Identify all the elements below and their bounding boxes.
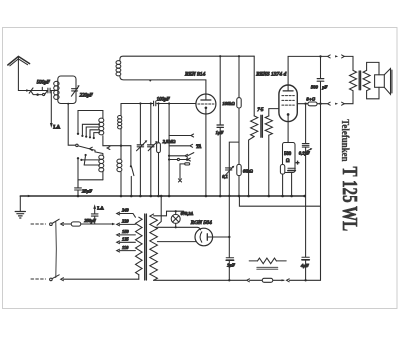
wire antenna horizontal — [18, 90, 57, 92]
wire coil taps to switch posts — [82, 124, 99, 137]
svg-text:500: 500 — [284, 152, 292, 157]
capacitor 250pF to LA — [94, 209, 96, 224]
svg-text:pF: pF — [321, 85, 327, 90]
capacitor 0,1uF — [305, 104, 307, 196]
fuse mains — [71, 222, 81, 226]
svg-text:REN 914: REN 914 — [184, 71, 206, 77]
transformer core — [261, 115, 263, 137]
resistor 8+G — [308, 102, 317, 106]
svg-text:150: 150 — [122, 229, 129, 234]
wire chassis bus — [20, 195, 304, 197]
coil antenna tank — [58, 76, 76, 104]
svg-text:500pF: 500pF — [37, 81, 51, 86]
svg-text:RENS 1374 d: RENS 1374 d — [255, 72, 286, 78]
taps voltage selector — [117, 212, 120, 215]
svg-text:100pF: 100pF — [157, 97, 171, 102]
coil 2 (osc coil) — [120, 104, 122, 196]
wire sub-bus stub — [239, 196, 320, 207]
capacitor 1uF — [219, 56, 221, 195]
antenna switch arrow — [26, 88, 33, 93]
wire cathode — [287, 122, 289, 143]
svg-text:7·5: 7·5 — [257, 108, 264, 113]
wire secondary bottom / HT — [154, 206, 321, 280]
coil U1 (band coil upper) — [102, 111, 104, 146]
capacitor 500pF — [320, 56, 322, 279]
svg-text:TA: TA — [196, 145, 201, 150]
transformer power core — [145, 214, 147, 280]
wire L1 taps — [81, 160, 99, 165]
capacitor 1uF reservoir — [228, 237, 230, 280]
svg-text:1µF: 1µF — [216, 130, 224, 135]
svg-text:Ω: Ω — [286, 159, 290, 164]
wire grid line w/ 100pF — [121, 103, 196, 105]
svg-text:220pF: 220pF — [80, 94, 94, 99]
svg-text:110: 110 — [122, 245, 129, 250]
wire column trimmer2 — [150, 104, 152, 196]
coil L1 (band coil lower) — [95, 152, 103, 180]
svg-text:220: 220 — [122, 219, 129, 224]
wire tank bottom to band switch — [68, 104, 75, 146]
plug break top — [328, 55, 345, 58]
capacitor trimmer1 — [137, 145, 143, 147]
resistor 2.5MOhm — [158, 104, 160, 196]
wire HT center tap — [157, 196, 161, 225]
wire column TA — [168, 104, 170, 196]
svg-text:25µF: 25µF — [82, 189, 92, 194]
transformer output secondary — [363, 70, 370, 90]
capacitor 4uF — [305, 196, 307, 280]
transformer power secondary — [150, 214, 158, 280]
wire screen to 8+G — [297, 103, 327, 105]
svg-text:T 125 WL: T 125 WL — [337, 167, 361, 232]
wire anode 2 — [157, 241, 196, 243]
wire column trimmer1 — [139, 104, 141, 196]
resistor 60kOhm — [237, 164, 241, 175]
capacitor trimmer2 — [148, 145, 154, 147]
svg-text:LA: LA — [53, 126, 60, 131]
switch mains link — [55, 222, 58, 278]
capacitor 100pF — [154, 101, 156, 106]
resistor 100kOhm — [238, 56, 240, 195]
capacitor 220pF variable — [72, 89, 78, 91]
wire LA tap — [50, 91, 52, 124]
svg-text:8+G: 8+G — [306, 97, 315, 102]
capacitor 25uF — [75, 180, 82, 196]
wire mains bottom — [31, 278, 46, 280]
switch S2 — [131, 146, 134, 196]
transformer power primary — [136, 217, 143, 275]
antenna — [8, 56, 30, 65]
speaker — [367, 62, 379, 98]
svg-text:+: + — [296, 161, 300, 167]
svg-text:250pF: 250pF — [84, 218, 96, 223]
svg-text:100kΩ: 100kΩ — [222, 101, 235, 106]
transformer interstage secondary — [265, 116, 272, 135]
capacitor cathode bypass — [288, 167, 295, 169]
wire mains top — [31, 223, 46, 225]
jack contact 1 — [169, 134, 194, 137]
svg-text:240: 240 — [122, 208, 129, 213]
switch S1 wave band — [76, 144, 78, 146]
transformer output primary — [350, 70, 357, 90]
wire secondary top to lamp — [154, 211, 184, 216]
wire antenna down-lead — [17, 57, 19, 91]
svg-text:6V0,3A: 6V0,3A — [181, 211, 194, 217]
svg-text:LA: LA — [97, 205, 104, 210]
svg-text:1µF: 1µF — [227, 262, 235, 267]
wire B+ tap — [229, 142, 239, 237]
op tube REN904 — [196, 94, 216, 114]
tube RGN564 — [195, 228, 213, 246]
choke field coil — [258, 258, 277, 264]
coil RF anode — [120, 56, 254, 80]
plug break bottom — [328, 102, 345, 105]
lamp dial 6V 0.3A — [175, 211, 177, 226]
svg-text:500: 500 — [311, 85, 319, 90]
resistor 500 Ohm box — [283, 143, 296, 173]
wire link line — [103, 145, 131, 147]
transformer output core — [359, 71, 360, 90]
svg-text:125: 125 — [122, 237, 129, 242]
ground — [19, 196, 21, 211]
transformer interstage primary — [253, 56, 255, 116]
node post left — [77, 157, 79, 159]
wire RENS anode top — [288, 56, 327, 85]
node antenna terminals — [31, 91, 48, 95]
svg-text:Telefunken: Telefunken — [339, 119, 351, 162]
voltage selector arrow — [112, 223, 115, 226]
svg-text:0,1µF: 0,1µF — [299, 151, 310, 157]
wire heater line — [155, 227, 201, 230]
wire coil U1 top hook — [78, 111, 103, 134]
svg-text:RGN 564: RGN 564 — [190, 220, 212, 226]
svg-text:4µF: 4µF — [301, 263, 309, 268]
tube RENS1374d — [279, 85, 297, 122]
fuse HT — [262, 278, 273, 282]
capacitor trimmer 0,1 — [226, 168, 232, 170]
jack contact row2 — [169, 158, 190, 161]
capacitor 500pF (series antenna cap) — [48, 88, 50, 93]
fuse link + lamp X — [185, 163, 190, 165]
wire rectifier output — [213, 236, 230, 238]
switch contact row — [169, 153, 194, 158]
svg-text:0,1: 0,1 — [222, 174, 228, 180]
jack contact TA — [169, 144, 193, 147]
